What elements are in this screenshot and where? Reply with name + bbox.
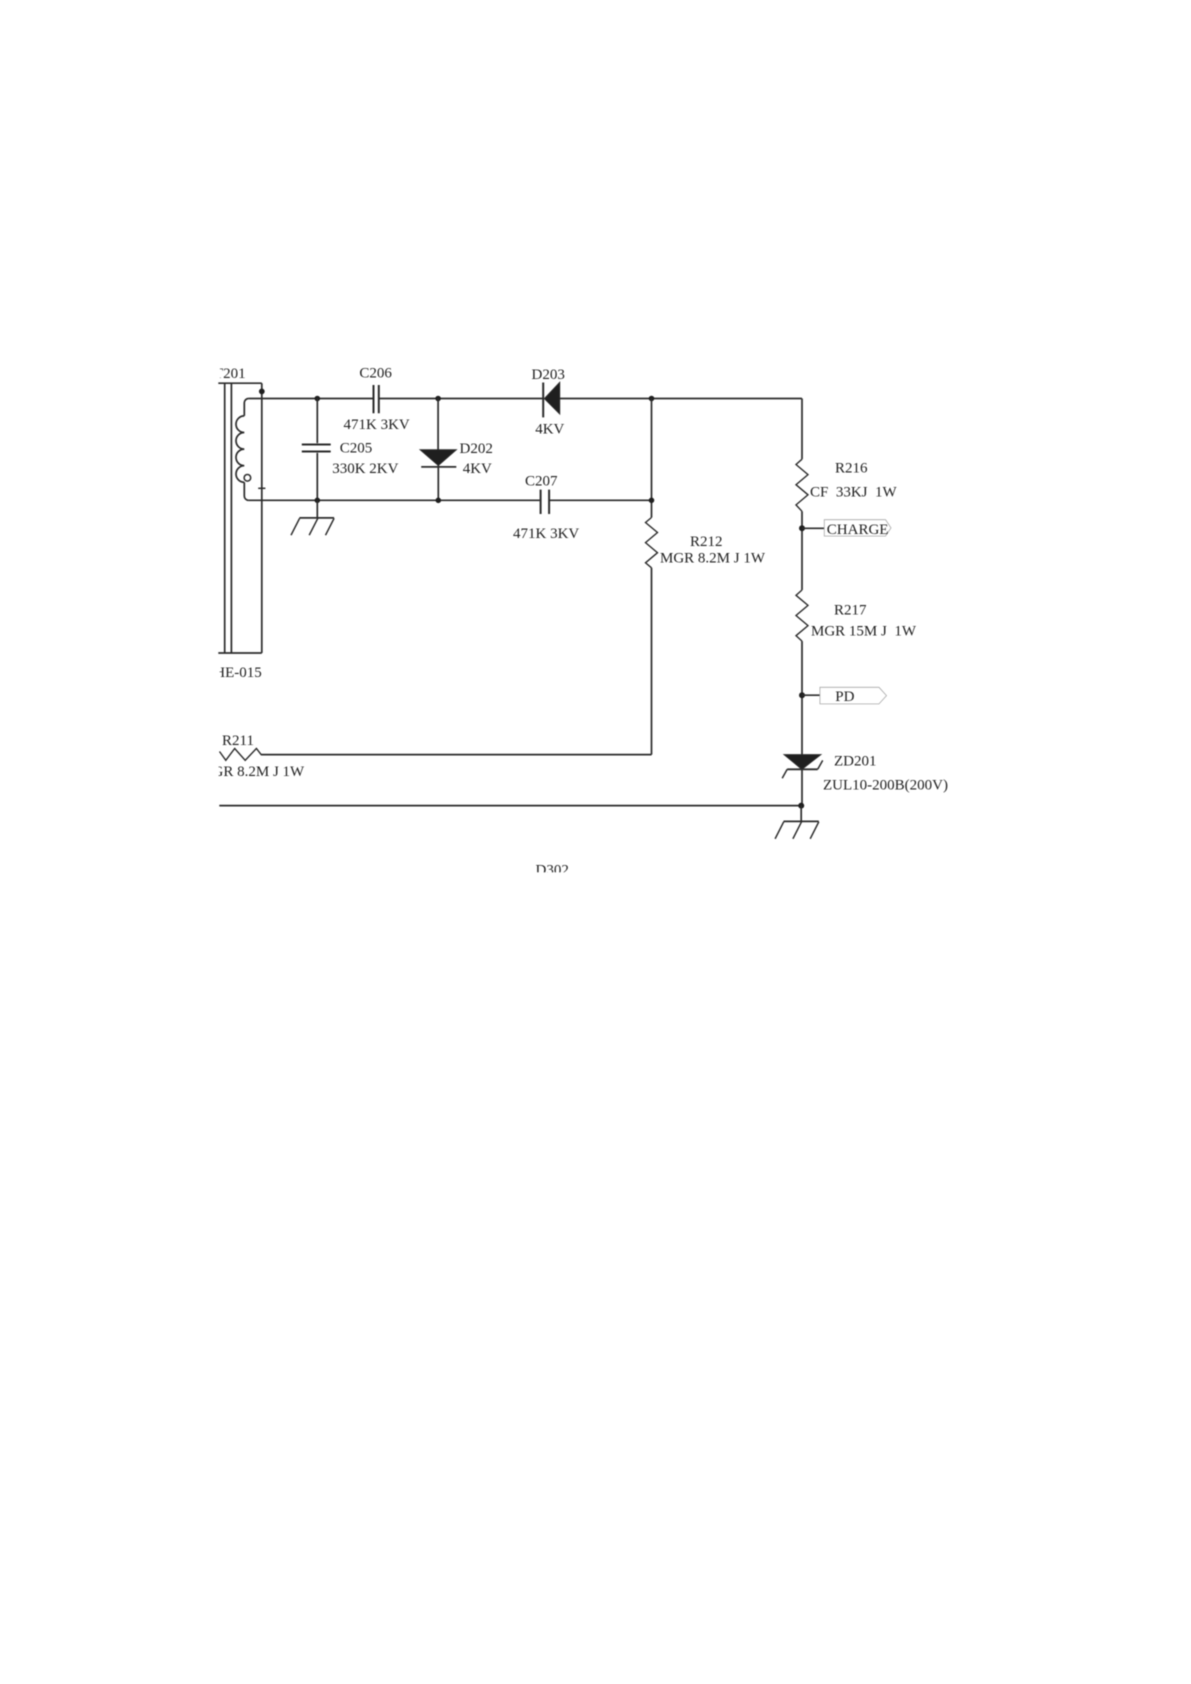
transformer T201 body bbox=[218, 383, 261, 653]
svg-text:C205: C205 bbox=[340, 441, 373, 457]
wire R212 branch vertical lower bbox=[651, 568, 653, 755]
ground at C205 bbox=[291, 500, 334, 535]
svg-text:ZUL10-200B(200V): ZUL10-200B(200V) bbox=[823, 777, 948, 793]
svg-text:471K 3KV: 471K 3KV bbox=[344, 417, 410, 433]
svg-text:HE-015: HE-015 bbox=[214, 665, 261, 681]
wire top rail right segment bbox=[560, 398, 802, 400]
svg-text:471K 3KV: 471K 3KV bbox=[513, 526, 579, 542]
svg-text:R212: R212 bbox=[690, 534, 723, 550]
svg-text:ZD201: ZD201 bbox=[834, 753, 877, 769]
svg-text:R217: R217 bbox=[834, 602, 867, 618]
zener diode ZD201 bbox=[782, 755, 823, 806]
wire R216 to CHARGE node bbox=[801, 511, 803, 590]
svg-text:MGR 15M J 1W: MGR 15M J 1W bbox=[811, 623, 917, 639]
node junction dot top rail R212 branch bbox=[649, 396, 655, 402]
node junction dot top rail D202 bbox=[435, 396, 441, 402]
wire R211 horizontal bbox=[261, 754, 652, 756]
wire bottom rail right segment bbox=[550, 499, 652, 501]
capacitor C207 bbox=[541, 490, 550, 514]
resistor R211 bbox=[220, 749, 262, 761]
wire bottom rail left segment bbox=[249, 499, 540, 501]
svg-text:4KV: 4KV bbox=[463, 461, 492, 477]
wire top rail middle segment bbox=[379, 398, 543, 400]
wire CHARGE stub bbox=[802, 527, 824, 529]
node CHARGE flag bbox=[824, 520, 891, 536]
svg-text:R216: R216 bbox=[835, 460, 868, 476]
node junction dot bottom rail R212 bbox=[649, 498, 655, 504]
svg-text:CF 33KJ 1W: CF 33KJ 1W bbox=[810, 484, 898, 500]
diode D203 bbox=[543, 382, 560, 417]
ground at ZD201 bbox=[775, 806, 819, 839]
transformer polarity circle bbox=[244, 475, 251, 482]
node junction dot bottom rail C205 bbox=[315, 498, 321, 504]
node CHARGE junction dot bbox=[799, 525, 805, 531]
svg-text:330K 2KV: 330K 2KV bbox=[332, 461, 398, 477]
transformer pin junction dot bbox=[259, 389, 265, 395]
svg-text:MGR 8.2M J 1W: MGR 8.2M J 1W bbox=[660, 550, 766, 566]
node PD junction dot bbox=[799, 692, 805, 698]
capacitor C206 bbox=[374, 385, 379, 413]
capacitor C205 bbox=[302, 399, 331, 501]
node junction dot bottom ground bbox=[798, 803, 804, 809]
node PD flag bbox=[820, 687, 887, 704]
node junction dot bottom rail D202 bbox=[436, 498, 442, 504]
wire top rail corner to R216 bbox=[801, 399, 803, 460]
resistor R216 bbox=[796, 459, 808, 511]
wire R212 branch vertical upper bbox=[651, 399, 653, 518]
node junction dot top rail C205 bbox=[315, 396, 321, 402]
transformer T201 secondary winding bbox=[236, 399, 249, 501]
svg-text:4KV: 4KV bbox=[535, 421, 564, 437]
wire R217 to PD node bbox=[801, 641, 803, 755]
svg-text:C206: C206 bbox=[359, 366, 392, 382]
svg-text:PD: PD bbox=[835, 689, 854, 705]
wire bottom rail long bbox=[219, 805, 801, 807]
svg-text:CHARGE: CHARGE bbox=[827, 522, 889, 538]
resistor R212 bbox=[646, 518, 658, 568]
svg-text:D203: D203 bbox=[532, 367, 565, 383]
resistor R217 bbox=[796, 590, 808, 641]
svg-text:C207: C207 bbox=[525, 473, 558, 489]
wire top rail left segment bbox=[249, 398, 374, 400]
svg-text:R211: R211 bbox=[222, 733, 254, 749]
svg-text:D202: D202 bbox=[460, 441, 493, 457]
wire PD stub bbox=[802, 694, 820, 696]
transformer pin tick bbox=[258, 487, 265, 489]
diode D202 bbox=[420, 399, 456, 501]
